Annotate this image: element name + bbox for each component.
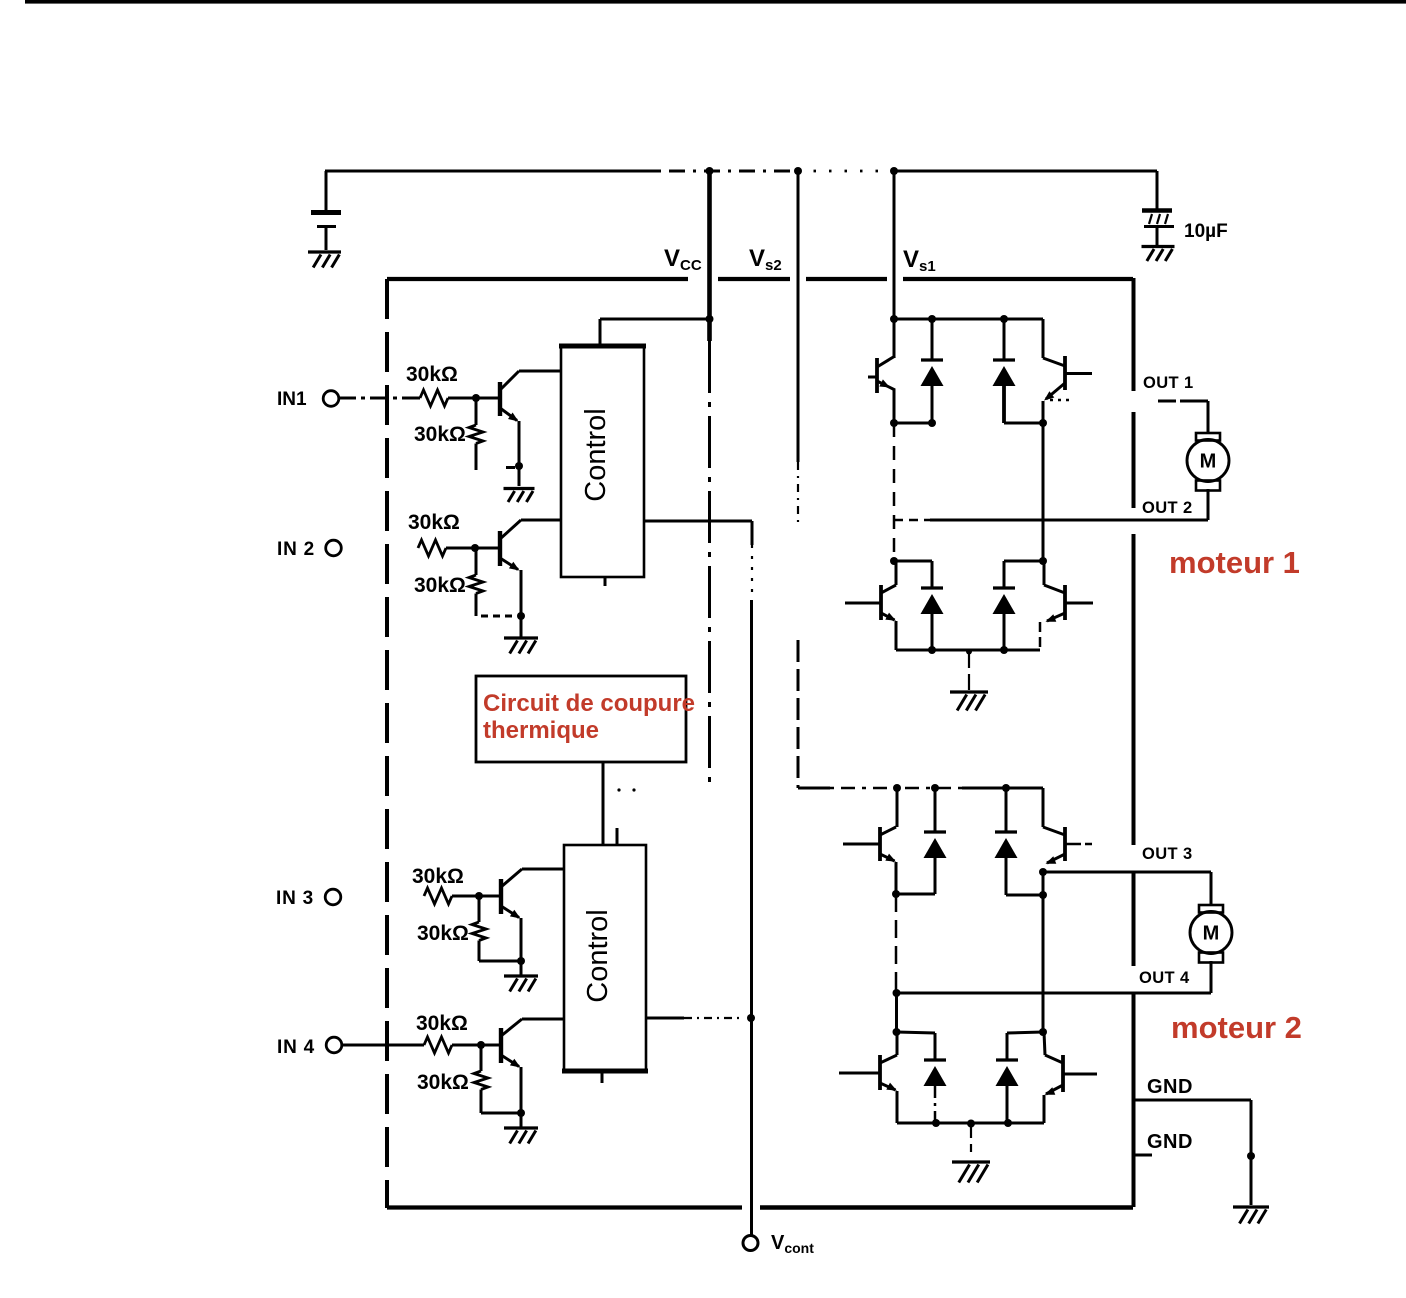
svg-text:30kΩ: 30kΩ — [417, 1071, 469, 1094]
svg-text:IN 3: IN 3 — [276, 888, 314, 909]
wire OUT1 down to motor — [1207, 401, 1210, 432]
wire Vs2 rail dashes — [797, 462, 799, 522]
wire U1 top to VCC — [599, 319, 602, 346]
resistor R8 — [474, 1071, 488, 1090]
wire R4 top lead — [475, 548, 478, 575]
wire OUT1 emitter dashes — [1050, 399, 1070, 401]
wire OUT3 line — [1043, 871, 1211, 874]
svg-text:GND: GND — [1147, 1076, 1193, 1098]
transistor Q11 lower-left — [878, 1055, 882, 1090]
wire Q4 emitter to ground — [520, 1113, 523, 1127]
wire D4 cathode lead — [1003, 561, 1006, 588]
transistor Q7 lower-left — [879, 585, 883, 620]
wire D1 anode — [931, 386, 934, 423]
wire R6 bottom lead — [478, 941, 481, 962]
wire OUT2 rail dashes — [893, 423, 896, 561]
wire Q4 emitter down — [520, 1067, 523, 1113]
node bridge2 rail D6 — [1002, 784, 1010, 792]
wire R2 bottom lead — [475, 444, 478, 471]
svg-text:30kΩ: 30kΩ — [414, 423, 466, 446]
node OUT3 junction — [1039, 868, 1047, 876]
capacitor C2 plate 2 — [1144, 225, 1174, 228]
wire Q3 emitter to ground — [520, 961, 523, 975]
svg-text:30kΩ: 30kΩ — [412, 865, 464, 888]
wire D8 cathode lead — [1006, 1033, 1009, 1060]
wire D6 to OUT3 node — [1006, 894, 1043, 897]
node bridge2 gnd stub — [967, 1120, 975, 1128]
transistor Q5 upper-left — [875, 358, 879, 393]
wire bridge1 bottom rail — [896, 649, 1040, 652]
transistor Q8 lower-right — [1063, 585, 1067, 620]
wire bridge2 bottom rail — [897, 1122, 1044, 1125]
wire top supply rail — [325, 170, 658, 173]
wire Vs2 rail — [797, 171, 800, 462]
wire OUT3 down to motor — [1210, 872, 1213, 905]
wire R1 to Q1 base — [448, 397, 499, 400]
motor M2 — [1199, 905, 1223, 913]
wire OUT3 vertical — [1042, 895, 1045, 1032]
node IN1 junction — [472, 394, 480, 402]
wire cap C1 top lead — [325, 171, 328, 210]
wire cap C2 top lead — [1156, 171, 1159, 209]
svg-text:30kΩ: 30kΩ — [416, 1012, 468, 1035]
resistor R5 — [424, 888, 452, 904]
diode D8 — [996, 1058, 1018, 1061]
wire D8 link — [1007, 1032, 1043, 1033]
ground C1 — [308, 250, 341, 253]
wire top supply rail dashed — [658, 170, 798, 173]
IC box right edge — [1132, 278, 1136, 391]
node Vs2 top junction — [794, 167, 802, 175]
ground Q3 — [504, 974, 538, 977]
svg-text:M: M — [1200, 451, 1217, 473]
wire Q1 emitter down — [518, 421, 521, 465]
transistor Q1 — [498, 382, 502, 416]
wire U2 stub below — [601, 1071, 604, 1083]
node Vs1 top junction — [890, 167, 898, 175]
wire U2 output right — [646, 1017, 684, 1020]
resistor R3 — [418, 540, 446, 556]
svg-text:IN 2: IN 2 — [277, 539, 315, 560]
ground bridge1 — [950, 690, 988, 693]
wire R5 to Q3 base — [452, 895, 500, 898]
node bridge2 lower right junction — [1039, 1028, 1047, 1036]
wire Q1 emitter to ground — [518, 465, 521, 486]
svg-text:OUT 1: OUT 1 — [1143, 374, 1194, 392]
resistor R4 — [469, 575, 483, 594]
svg-text:30kΩ: 30kΩ — [414, 574, 466, 597]
wire IN4 to R7 — [342, 1044, 424, 1047]
wire OUT3 stub down — [1042, 872, 1045, 895]
resistor R2 — [469, 425, 483, 444]
wire OUT4 rail lower — [895, 993, 898, 1032]
wire R7 to Q4 base — [452, 1044, 500, 1047]
wire GND1 — [1133, 1099, 1251, 1102]
diode D2 — [1003, 319, 1006, 360]
wire Q5 collector lead — [893, 319, 896, 358]
wire R2 top lead — [475, 398, 478, 425]
svg-text:30kΩ: 30kΩ — [408, 511, 460, 534]
wire OUT1 vertical — [1042, 423, 1045, 561]
capacitor C1 plate 1 — [311, 210, 341, 215]
node bridge1 rail left — [890, 315, 898, 323]
wire D2 anode thick — [1002, 386, 1006, 423]
wire thermal box to U2 — [602, 762, 605, 845]
control block U2 — [564, 845, 646, 1071]
wire R8 top lead — [480, 1045, 483, 1071]
IC box bottom edge — [387, 1205, 742, 1209]
node D3 anode — [928, 646, 936, 654]
wire gnd stub bridge1 — [968, 652, 970, 690]
wire gnd stub bridge2 — [970, 1124, 972, 1152]
svg-text:Control: Control — [580, 408, 612, 502]
node OUT2 emitter junction — [890, 419, 898, 427]
node IN4 junction — [477, 1041, 485, 1049]
wire Q9 collector lead — [896, 788, 899, 827]
wire bridge1 top rail — [894, 318, 1043, 321]
wire R6 to Q3 emitter — [479, 960, 521, 963]
wire D7 cathode lead — [934, 1033, 937, 1060]
wire Q2 collector to control — [521, 519, 561, 522]
terminal Vcont — [743, 1236, 758, 1251]
svg-text:moteur 1: moteur 1 — [1169, 545, 1300, 580]
wire D8 anode — [1006, 1086, 1009, 1123]
wire Q10 collector lead — [1042, 788, 1045, 827]
wire Vcont vertical dots — [751, 545, 753, 600]
svg-text:thermique: thermique — [483, 717, 599, 744]
wire D3 cathode lead — [931, 561, 934, 588]
node D7 anode — [932, 1119, 940, 1127]
wire Vs2 rail lower — [797, 640, 800, 788]
wire Q12 collector lead — [1044, 1032, 1045, 1055]
svg-text:10µF: 10µF — [1184, 221, 1228, 242]
wire Vs2 corner to bridge2 — [798, 787, 830, 790]
wire OUT1 out — [1158, 400, 1176, 403]
wire D6 anode — [1005, 858, 1008, 895]
wire Q12 emitter down — [1043, 1095, 1046, 1123]
node GND junction — [1247, 1152, 1255, 1160]
wire Vcont vertical upper — [751, 521, 754, 545]
node bridge1 lower right junction — [1039, 557, 1047, 565]
node bridge1 lower left junction — [890, 557, 898, 565]
diode D5 — [934, 788, 937, 832]
wire Q10 emitter down — [1042, 869, 1045, 872]
node U1-VCC junction — [706, 315, 714, 323]
node D4 anode — [1000, 646, 1008, 654]
svg-text:Circuit de coupure: Circuit de coupure — [483, 690, 695, 717]
svg-text:moteur 2: moteur 2 — [1171, 1010, 1302, 1045]
wire GND2 stub — [1133, 1154, 1152, 1157]
wire Q2 emitter down — [520, 570, 523, 616]
svg-text:OUT 4: OUT 4 — [1139, 969, 1190, 987]
wire R8 bottom lead — [480, 1090, 483, 1114]
IC box top edge — [387, 277, 688, 281]
ground bridge2 — [952, 1160, 990, 1163]
node bridge1 rail D1 — [928, 315, 936, 323]
wire Q6 collector lead — [1042, 319, 1045, 358]
node bridge2 lower left junction — [893, 1028, 901, 1036]
wire Q5 emitter down — [893, 389, 896, 423]
capacitor C2 hatched plate — [1142, 208, 1172, 213]
wire R3 to Q2 base — [446, 547, 499, 550]
wire OUT2 line — [894, 519, 930, 522]
transistor Q3 — [499, 879, 503, 914]
resistor R1 — [420, 390, 448, 406]
node dash specks — [617, 788, 620, 791]
wire R4 bottom lead — [475, 594, 478, 617]
node IN3 junction — [475, 892, 483, 900]
wire Q6 emitter down — [1042, 401, 1045, 423]
wire motor M2 bottom — [1210, 961, 1213, 993]
terminal IN2 — [326, 540, 342, 556]
wire U2 top stub — [616, 828, 619, 845]
wire D7 link — [897, 1032, 936, 1033]
wire Q8 collector lead — [1043, 561, 1046, 585]
transistor Q6 upper-right — [1063, 356, 1067, 390]
transistor Q10 upper-right — [1063, 827, 1067, 861]
node bridge2 rail left — [893, 784, 901, 792]
wire Q7 collector lead — [895, 561, 898, 585]
transistor Q2 — [498, 531, 502, 566]
wire D4 anode — [1003, 614, 1006, 650]
diode D6 — [1005, 788, 1008, 832]
wire D4 link — [1004, 560, 1043, 563]
wire Vcont vertical — [750, 600, 753, 1236]
capacitor C1 plate 2 — [317, 225, 336, 228]
transistor Q9 upper-left — [878, 827, 882, 861]
wire Q11 collector lead — [896, 1032, 899, 1055]
wire GND down — [1250, 1100, 1253, 1205]
wire U1 output right — [644, 520, 752, 523]
wire cap C2 bottom lead — [1156, 228, 1159, 245]
wire D2 to OUT1 node — [1004, 422, 1043, 425]
wire R8 to Q4 emitter — [481, 1112, 521, 1115]
node VCC top junction — [706, 167, 714, 175]
wire cap C1 bottom lead — [325, 228, 328, 250]
svg-text:OUT 3: OUT 3 — [1142, 845, 1193, 863]
wire D5 anode — [934, 858, 937, 894]
node bridge2 out4 junction — [892, 890, 900, 898]
terminal IN1 — [323, 391, 339, 407]
node OUT1 junction — [1039, 419, 1047, 427]
node bridge1 gnd stub — [966, 649, 972, 655]
terminal IN4 — [326, 1037, 342, 1053]
ground Q2 — [504, 636, 538, 639]
node bridge1 rail D2 — [1000, 315, 1008, 323]
svg-text:30kΩ: 30kΩ — [417, 922, 469, 945]
svg-text:OUT 2: OUT 2 — [1142, 499, 1193, 517]
wire Q3 collector to control — [522, 868, 564, 871]
control block U1 — [561, 346, 644, 577]
wire R6 top lead — [478, 896, 481, 922]
svg-text:Control: Control — [582, 909, 614, 1003]
svg-text:IN 4: IN 4 — [277, 1037, 315, 1058]
wire Q8 emitter down — [1039, 622, 1042, 650]
node Q2 emitter junction — [517, 612, 525, 620]
wire D3 link — [894, 560, 932, 563]
ground GND pin — [1233, 1205, 1269, 1208]
svg-text:30kΩ: 30kΩ — [406, 363, 458, 386]
transistor Q4 — [499, 1028, 503, 1063]
wire OUT2 link — [894, 422, 932, 425]
node U2 output junction — [747, 1014, 755, 1022]
node OUT3 lower junction — [1039, 891, 1047, 899]
wire top supply rail right — [894, 170, 1157, 173]
wire U1 stub below — [604, 577, 607, 586]
svg-text:GND: GND — [1147, 1131, 1193, 1153]
ground Q1 — [504, 487, 535, 490]
wire stub left of Q1 emitter — [506, 466, 515, 469]
terminal IN3 — [325, 889, 341, 905]
node D1 anode junction — [928, 419, 936, 427]
svg-text:IN1: IN1 — [277, 389, 307, 410]
wire OUT4 rail — [895, 894, 898, 993]
diode D7 — [924, 1058, 946, 1061]
node OUT4 line junction — [893, 989, 901, 997]
wire IN1 to R1 — [338, 397, 422, 400]
node Q1 emitter junction — [515, 462, 523, 470]
diode D1 — [931, 319, 934, 360]
wire R4 to Q2 emitter dashed — [481, 615, 515, 618]
wire D3 anode — [931, 614, 934, 650]
wire Q2 emitter to ground — [520, 616, 523, 637]
node IN2 junction — [471, 544, 479, 552]
node D8 anode — [1004, 1119, 1012, 1127]
node Q4 emitter junction — [517, 1109, 525, 1117]
node bridge2 rail D5 — [931, 784, 939, 792]
wire VCC rail thick — [707, 171, 712, 341]
wire motor M1 bottom — [1207, 489, 1210, 520]
top border bar — [25, 0, 1406, 4]
wire OUT4 link — [896, 893, 935, 896]
wire Vs1 rail — [893, 171, 896, 319]
wire OUT4 line — [897, 992, 1212, 995]
resistor R6 — [472, 922, 486, 941]
IC box left edge — [385, 279, 389, 1208]
motor M1 — [1196, 433, 1220, 441]
wire Q11 emitter down — [896, 1091, 899, 1123]
thermal shutdown box — [476, 676, 686, 762]
node Q3 emitter junction — [517, 957, 525, 965]
wire VCC rail lower — [708, 341, 711, 786]
wire Q4 collector to control — [522, 1018, 564, 1021]
wire Q9 emitter down — [895, 862, 898, 894]
transistor Q12 lower-right — [1061, 1055, 1065, 1092]
ground Q4 — [504, 1126, 538, 1129]
wire D7 anode — [934, 1086, 937, 1123]
ground C2 — [1142, 245, 1175, 248]
diode D4 — [993, 586, 1015, 589]
resistor R7 — [424, 1037, 452, 1053]
wire Q3 emitter down — [520, 918, 523, 961]
diode D3 — [921, 586, 943, 589]
wire Q7 emitter down — [895, 621, 898, 650]
wire Q1 collector to control — [519, 370, 561, 373]
svg-text:M: M — [1203, 923, 1220, 945]
